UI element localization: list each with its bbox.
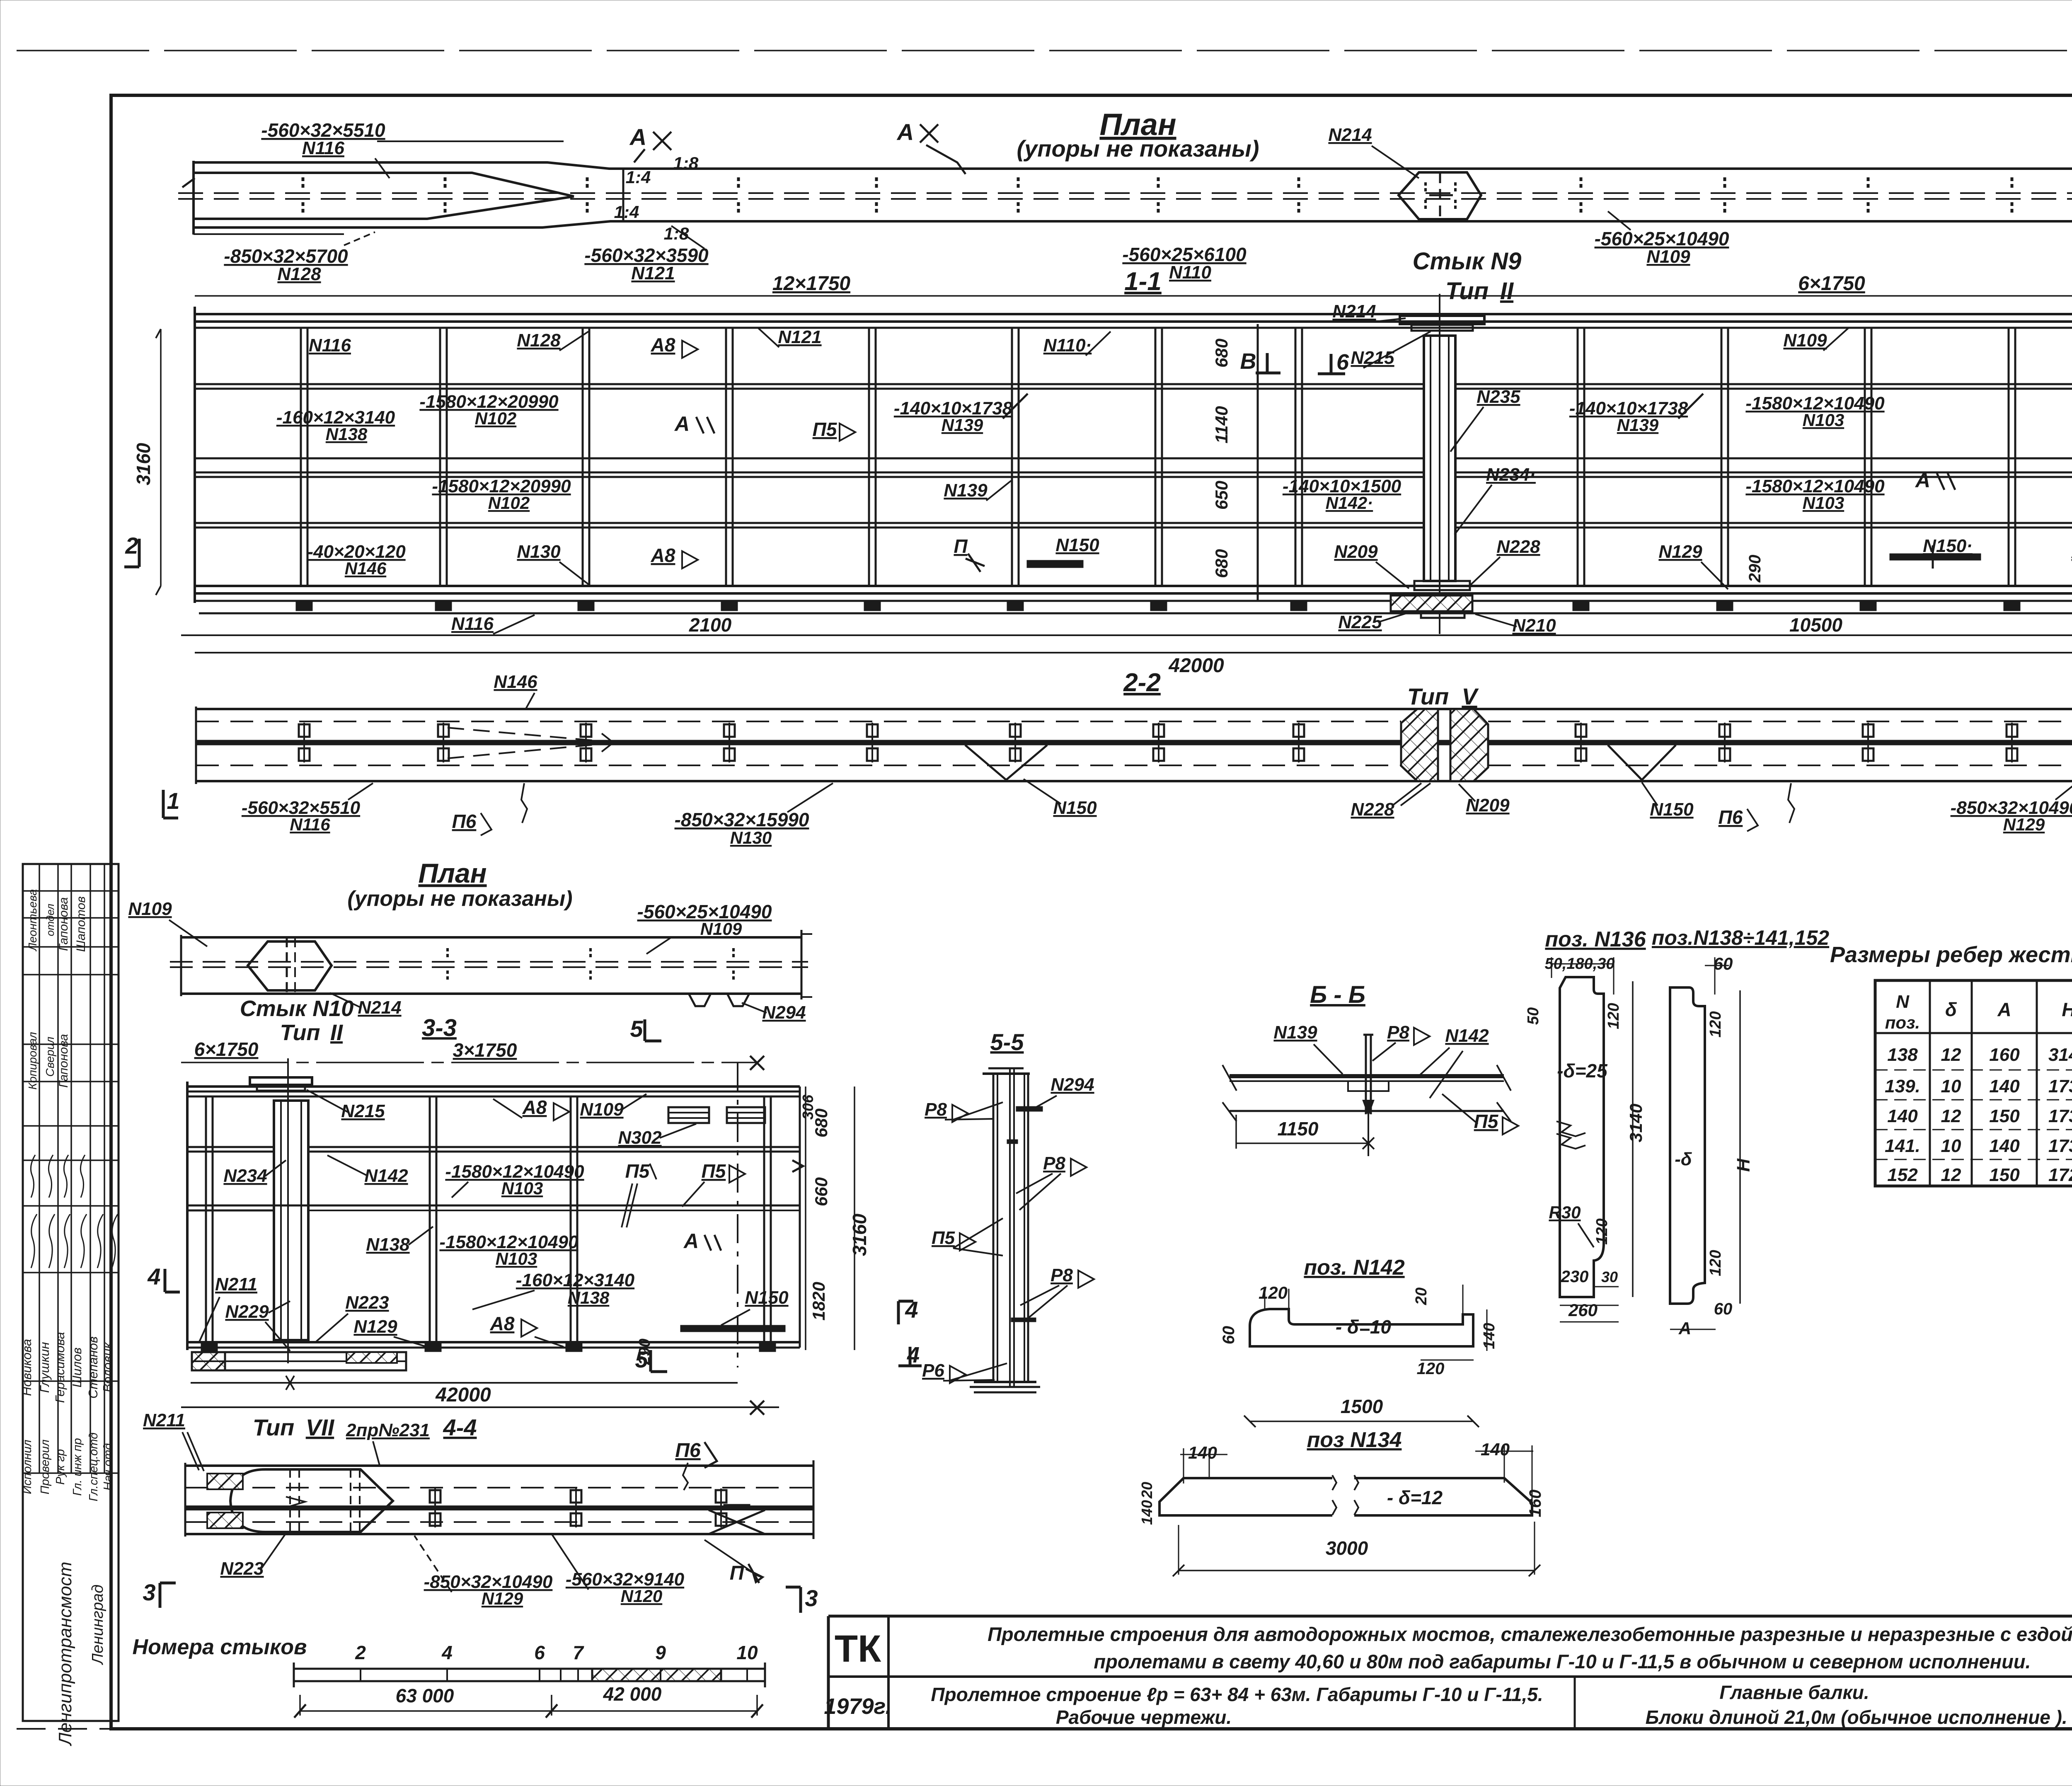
svg-text:660: 660: [811, 1177, 831, 1206]
svg-text:N210: N210: [1512, 615, 1556, 636]
4-4 web center line: [185, 1505, 813, 1510]
pos136 bottom dims: [1594, 1286, 1619, 1287]
svg-text:3160: 3160: [849, 1213, 870, 1256]
svg-text:N116: N116: [451, 614, 494, 634]
svg-text:1:8: 1:8: [673, 153, 699, 173]
sheet trim line top: [17, 50, 2072, 51]
svg-text:12: 12: [1941, 1106, 1961, 1126]
svg-text:П6: П6: [1719, 806, 1743, 828]
svg-text:1-1: 1-1: [1124, 267, 1162, 296]
svg-text:N120: N120: [621, 1586, 662, 1606]
svg-text:10: 10: [736, 1642, 758, 1663]
svg-text:141.: 141.: [1885, 1136, 1920, 1156]
splice Styk N9 in section 1-1: center axis: [1439, 294, 1440, 634]
svg-text:П5: П5: [1474, 1111, 1499, 1132]
svg-text:Гапонова: Гапонова: [57, 1034, 70, 1088]
svg-text:Рук гр: Рук гр: [54, 1449, 67, 1485]
svg-text:(упоры не показаны): (упоры не показаны): [347, 887, 572, 911]
svg-text:Блоки длиной 21,0м (обычное: Блоки длиной 21,0м (обычное исполнение )…: [1646, 1706, 2072, 1728]
2-2 V-notch marks: [965, 745, 1047, 780]
svg-text:N142: N142: [1445, 1026, 1489, 1046]
longitudinal line B: [195, 457, 1424, 460]
svg-text:II: II: [1500, 278, 1514, 305]
svg-text:6×1750: 6×1750: [194, 1038, 259, 1060]
svg-text:1:8: 1:8: [664, 224, 689, 243]
svg-text:Номера стыков: Номера стыков: [133, 1635, 307, 1659]
5-5 top flange: [983, 1072, 1030, 1075]
svg-text:N215: N215: [1351, 348, 1394, 368]
B-B beam: [1230, 1074, 1504, 1078]
svg-text:N138: N138: [366, 1234, 410, 1255]
svg-text:63 000: 63 000: [396, 1685, 454, 1706]
svg-text:VII: VII: [306, 1414, 335, 1440]
svg-text:Главные балки.: Главные балки.: [1719, 1682, 1869, 1703]
3-3 N150 bar: [680, 1325, 785, 1332]
svg-text:3000: 3000: [1326, 1537, 1368, 1559]
svg-text:1:4: 1:4: [614, 202, 639, 222]
svg-text:N103: N103: [1803, 410, 1844, 430]
svg-text:Воловик: Воловик: [100, 1342, 115, 1392]
svg-text:120: 120: [1707, 1011, 1724, 1037]
svg-text:Пролетное строение ℓр = 63+: Пролетное строение ℓр = 63+ 84 + 63м. Га…: [931, 1684, 1543, 1705]
vertical stiffeners section 1-1: [300, 328, 302, 586]
pos134 strip outline right part: [1354, 1478, 1532, 1515]
svg-text:N129: N129: [1658, 542, 1702, 562]
svg-text:-δ: -δ: [1675, 1149, 1692, 1169]
section 1-1 top flange: [195, 313, 2072, 315]
svg-text:2: 2: [355, 1642, 366, 1663]
4-4 splice obround Tip VII: [230, 1469, 393, 1532]
svg-text:42000: 42000: [1168, 655, 1224, 677]
svg-text:-δ=25: -δ=25: [1557, 1060, 1608, 1082]
2-2 band outline: [196, 708, 2072, 710]
svg-text:12×1750: 12×1750: [772, 273, 851, 295]
3-3 bottom flange: [187, 1341, 800, 1343]
svg-text:4-4: 4-4: [443, 1414, 477, 1440]
3-3 N302 stop blocks: [668, 1107, 709, 1123]
pos142 dims: [1264, 1289, 1266, 1309]
svg-text:140: 140: [1481, 1440, 1510, 1459]
svg-text:N209: N209: [1334, 542, 1378, 562]
svg-text:12: 12: [1941, 1165, 1961, 1185]
svg-text:П6: П6: [675, 1440, 701, 1462]
svg-text:160: 160: [1526, 1490, 1544, 1517]
svg-text:А: А: [896, 119, 914, 145]
svg-text:А8: А8: [522, 1096, 547, 1118]
svg-text:N139: N139: [942, 415, 983, 435]
svg-text:1738: 1738: [2048, 1076, 2072, 1096]
3-3 bottom splice plates: [192, 1352, 225, 1370]
2-2 bolt clusters: [299, 724, 310, 737]
2-2 П6 leader right: [1788, 783, 1794, 823]
svg-text:120: 120: [1417, 1360, 1445, 1378]
svg-text:N139: N139: [944, 480, 988, 501]
3-3 left edge: [186, 1082, 189, 1350]
svg-text:12: 12: [1941, 1045, 1961, 1065]
svg-text:Р8: Р8: [1051, 1265, 1073, 1285]
svg-text:7: 7: [573, 1642, 584, 1663]
svg-text:Р8: Р8: [925, 1099, 947, 1120]
svg-text:5: 5: [630, 1016, 643, 1042]
svg-text:А8: А8: [490, 1313, 515, 1334]
svg-text:Пролетные строения для авто: Пролетные строения для автодорожных мост…: [988, 1623, 2072, 1645]
svg-text:N121: N121: [631, 263, 675, 283]
plan splice joint line N121/N128: [622, 169, 625, 221]
svg-text:поз. N136: поз. N136: [1545, 927, 1646, 951]
section B-B cut line: [1257, 324, 1259, 601]
svg-text:1150: 1150: [1278, 1118, 1319, 1140]
svg-text:N228: N228: [1496, 537, 1540, 557]
stamp verticals: [39, 864, 40, 1473]
svg-text:N294: N294: [762, 1002, 806, 1023]
plan girder left break mark: [182, 178, 195, 187]
svg-text:N109: N109: [128, 899, 172, 919]
svg-text:-850×32×15990: -850×32×15990: [675, 809, 809, 830]
svg-text:Проверил: Проверил: [39, 1440, 52, 1495]
svg-text:ТК: ТК: [835, 1628, 881, 1670]
svg-text:N150: N150: [1055, 535, 1099, 555]
splice bottom plate N209/N228: [1414, 581, 1470, 590]
svg-text:А8: А8: [651, 545, 675, 566]
svg-text:230: 230: [1561, 1268, 1589, 1286]
svg-text:А: А: [683, 1229, 699, 1253]
lower plan centerline: [170, 961, 808, 963]
svg-text:5: 5: [635, 1346, 648, 1372]
svg-text:Шапотов: Шапотов: [74, 896, 88, 952]
5-5 stub N294: [1016, 1106, 1043, 1111]
svg-text:Тип: Тип: [280, 1020, 320, 1045]
svg-text:II: II: [330, 1020, 343, 1045]
2-2 splice hatched plates N228/N209: [1401, 709, 1438, 781]
svg-text:30: 30: [1601, 1268, 1618, 1285]
svg-text:N130: N130: [730, 828, 772, 847]
svg-text:160: 160: [1989, 1045, 2020, 1065]
svg-text:Тип: Тип: [253, 1414, 295, 1440]
4-4 splice dashed rows: [289, 1469, 291, 1532]
svg-text:140: 140: [1138, 1500, 1155, 1525]
svg-text:В: В: [1240, 349, 1256, 374]
svg-text:отдел: отдел: [44, 903, 56, 936]
svg-text:1738: 1738: [2048, 1106, 2072, 1126]
svg-text:150: 150: [1989, 1165, 2020, 1185]
pos134 strip outline left part: [1159, 1478, 1332, 1515]
svg-text:1820: 1820: [809, 1282, 828, 1320]
svg-text:4: 4: [441, 1642, 453, 1663]
svg-text:N146: N146: [494, 672, 537, 692]
svg-text:N150: N150: [1650, 799, 1694, 820]
svg-text:N223: N223: [220, 1559, 264, 1579]
svg-text:N110·: N110·: [1043, 335, 1092, 356]
lower plan bolt marks: [446, 948, 449, 959]
svg-text:N138: N138: [326, 424, 368, 444]
svg-text:1:4: 1:4: [626, 167, 651, 187]
svg-text:3-3: 3-3: [422, 1014, 457, 1041]
pos138 strip outline: [1670, 987, 1705, 1304]
svg-text:680: 680: [1212, 549, 1231, 578]
pos142 strip outline: [1250, 1309, 1473, 1346]
svg-text:Степанов: Степанов: [86, 1336, 100, 1399]
svg-text:N146: N146: [345, 559, 387, 578]
svg-text:N109: N109: [700, 919, 742, 939]
svg-text:N228: N228: [1351, 799, 1394, 820]
longitudinal stiffener line A: [195, 383, 1424, 385]
svg-text:Гл.спец.отд: Гл.спец.отд: [87, 1433, 100, 1501]
longitudinal stiffener line C: [195, 472, 1424, 474]
stamp outer box: [23, 864, 119, 1721]
pos138 dims: [1714, 957, 1716, 995]
3-3 vertical stiffeners: [205, 1096, 207, 1342]
svg-text:пролетами в свету 40,60 и 8: пролетами в свету 40,60 и 80м под габари…: [1094, 1650, 2031, 1672]
svg-text:120: 120: [1707, 1250, 1724, 1276]
svg-text:3140: 3140: [1626, 1104, 1646, 1142]
svg-text:N103: N103: [501, 1179, 543, 1198]
svg-text:N130: N130: [517, 542, 561, 562]
svg-text:290: 290: [1746, 555, 1764, 583]
3-3 longitudinal line B: [187, 1205, 800, 1207]
svg-text:N235: N235: [1477, 387, 1520, 407]
svg-text:Н: Н: [1733, 1158, 1754, 1172]
svg-text:Гл. инж пр: Гл. инж пр: [71, 1438, 84, 1496]
pos134 chamfer dims: [1183, 1448, 1184, 1483]
svg-text:1728: 1728: [2048, 1165, 2072, 1185]
svg-text:А: А: [1915, 469, 1930, 492]
svg-text:60: 60: [1220, 1326, 1238, 1345]
svg-text:6: 6: [534, 1642, 545, 1663]
svg-text:Размеры ребер жесткости: Размеры ребер жесткости: [1830, 942, 2072, 967]
stamp horizontals: [23, 890, 119, 892]
plan girder inner plate edge bottom (taper 1:4): [194, 196, 574, 219]
cover plate line under bottom flange: [199, 612, 2072, 615]
3-3 splice column N235: [287, 1058, 289, 1363]
svg-text:N129: N129: [353, 1317, 397, 1337]
svg-text:- δ=10: - δ=10: [1336, 1316, 1392, 1338]
svg-text:А: А: [674, 412, 690, 436]
svg-text:Копировал: Копировал: [26, 1032, 39, 1089]
svg-text:N138: N138: [568, 1288, 610, 1307]
plan girder extra bottom edge line left part: [194, 233, 344, 235]
lower plan right-end flange notches N294: [689, 994, 711, 1006]
svg-text:N121: N121: [778, 327, 821, 347]
svg-text:Леонтьева: Леонтьева: [26, 889, 39, 952]
svg-text:650: 650: [1212, 481, 1231, 510]
svg-text:120: 120: [1259, 1283, 1288, 1302]
section 1-1 left edge: [194, 307, 196, 603]
plan girder inner plate edge top (taper 1:4): [194, 173, 574, 196]
svg-text:поз.: поз.: [1885, 1013, 1920, 1032]
stamp signatures band 2: [31, 1155, 35, 1198]
svg-text:3×1750: 3×1750: [453, 1039, 517, 1061]
scale bar body: [294, 1669, 765, 1681]
svg-text:N225: N225: [1338, 612, 1382, 632]
svg-text:1979г.: 1979г.: [824, 1694, 891, 1719]
svg-text:Нач отд: Нач отд: [102, 1443, 115, 1491]
svg-text:9: 9: [655, 1642, 666, 1663]
svg-text:4: 4: [147, 1263, 160, 1290]
svg-text:Исполнил: Исполнил: [21, 1440, 34, 1494]
svg-text:R30: R30: [1549, 1203, 1581, 1222]
svg-text:поз. N142: поз. N142: [1304, 1256, 1404, 1280]
svg-text:N211: N211: [143, 1410, 185, 1430]
svg-text:А: А: [629, 124, 646, 150]
section 1-1 bottom flange: [195, 585, 2072, 587]
svg-text:2-2: 2-2: [1123, 668, 1161, 697]
3-3 right break edge: [799, 1087, 801, 1348]
svg-text:60: 60: [1714, 1300, 1733, 1318]
5-5 column: [992, 1074, 995, 1382]
svg-text:N128: N128: [277, 264, 321, 284]
svg-text:Шилов: Шилов: [70, 1348, 84, 1388]
2-2 taper hidden lines: [448, 728, 599, 741]
plan centerline dashed: [178, 192, 2072, 194]
svg-text:П6: П6: [452, 811, 477, 832]
svg-text:Н: Н: [2062, 999, 2072, 1020]
svg-text:1730: 1730: [2048, 1136, 2072, 1156]
lower plan band outline: [181, 936, 801, 939]
cut line 5-5 vertical: [737, 1062, 738, 1367]
4-4 splice bolts hatch left: [207, 1474, 243, 1489]
svg-text:П5: П5: [625, 1160, 650, 1182]
svg-text:2: 2: [125, 532, 138, 559]
svg-text:2пр№231: 2пр№231: [346, 1420, 430, 1440]
scale bar dims: [300, 1710, 757, 1712]
svg-text:П5: П5: [702, 1160, 726, 1182]
svg-text:Ленинград: Ленинград: [89, 1585, 107, 1665]
svg-text:N294: N294: [1051, 1075, 1094, 1095]
pos136 3140 dim: [1632, 981, 1634, 1297]
svg-text:поз.N138÷141,152: поз.N138÷141,152: [1652, 926, 1829, 949]
svg-text:N139: N139: [1273, 1022, 1317, 1043]
svg-text:N109: N109: [1646, 247, 1690, 267]
svg-text:N223: N223: [345, 1292, 389, 1313]
svg-text:П: П: [954, 535, 968, 557]
svg-text:N: N: [1896, 992, 1910, 1012]
svg-text:N214: N214: [358, 997, 401, 1018]
svg-text:Р8: Р8: [1043, 1153, 1065, 1174]
3-3 longitudinal line A: [187, 1146, 274, 1148]
svg-text:Сверил: Сверил: [44, 1036, 56, 1077]
svg-text:139.: 139.: [1885, 1076, 1920, 1096]
svg-text:N211: N211: [215, 1274, 257, 1295]
svg-text:Р8: Р8: [1387, 1022, 1409, 1043]
svg-text:Герасимова: Герасимова: [53, 1332, 67, 1403]
svg-text:N116: N116: [290, 815, 330, 834]
B-B notch: [1348, 1081, 1389, 1091]
svg-text:138: 138: [1887, 1045, 1918, 1065]
stamp signatures band: [31, 1214, 37, 1268]
svg-text:10: 10: [1941, 1076, 1961, 1096]
svg-text:N116: N116: [309, 335, 351, 356]
svg-text:П5: П5: [932, 1228, 955, 1248]
svg-text:20: 20: [1413, 1287, 1430, 1305]
svg-text:140: 140: [1989, 1136, 2020, 1156]
svg-text:120: 120: [1593, 1218, 1611, 1244]
svg-text:N234: N234: [223, 1166, 267, 1186]
5-5 bottom flange: [974, 1381, 1036, 1383]
svg-text:V: V: [1462, 683, 1479, 709]
lower plan splice octagon N214 (Styk N10): [248, 941, 332, 990]
dimension 3160 left: [160, 329, 162, 586]
svg-text:Гапонова: Гапонова: [57, 897, 70, 951]
svg-text:N129: N129: [2003, 815, 2045, 834]
svg-text:5-5: 5-5: [990, 1029, 1024, 1055]
3-3 top flange: [187, 1085, 800, 1088]
svg-text:260: 260: [1568, 1300, 1598, 1320]
svg-text:N150·: N150·: [1923, 536, 1973, 556]
longitudinal stiffener line D: [195, 522, 1424, 524]
svg-text:680: 680: [1212, 339, 1231, 368]
svg-text:10: 10: [1941, 1136, 1961, 1156]
svg-text:42000: 42000: [435, 1384, 491, 1406]
plan bolt group marks: [302, 177, 305, 190]
svg-text:План: План: [418, 858, 487, 888]
3-3 right dim column: [805, 1087, 806, 1350]
svg-text:-160×12×3140: -160×12×3140: [516, 1270, 635, 1290]
4-4 band outline: [185, 1464, 813, 1467]
svg-text:1140: 1140: [1212, 406, 1231, 443]
sheet trim dashes bottom left: [17, 1728, 110, 1730]
svg-text:N116: N116: [302, 138, 344, 158]
svg-text:П5: П5: [813, 419, 838, 440]
svg-text:120: 120: [1605, 1003, 1622, 1029]
4-4 X brace right: [709, 1510, 765, 1534]
svg-text:2100: 2100: [689, 614, 732, 636]
svg-text:1500: 1500: [1341, 1396, 1383, 1417]
svg-text:3: 3: [805, 1585, 818, 1611]
svg-text:Тип: Тип: [1445, 278, 1489, 305]
long lines between 1-1 and 2-2: [181, 634, 2072, 636]
svg-text:Тип: Тип: [1407, 683, 1449, 709]
splice top plates N214: [1400, 316, 1484, 324]
svg-text:50: 50: [1525, 1007, 1542, 1025]
3-3 42000 dims: [191, 1382, 738, 1384]
pos136 top dim ticks: [1552, 963, 1614, 965]
svg-text:δ: δ: [1945, 999, 1957, 1020]
pos136 strip outline: [1560, 977, 1604, 1297]
svg-text:N109: N109: [1783, 330, 1827, 351]
svg-text:Стык N10: Стык N10: [240, 996, 354, 1021]
plan girder top flange outline: [194, 162, 2072, 169]
svg-text:N139: N139: [1617, 415, 1659, 435]
svg-text:140: 140: [1887, 1106, 1918, 1126]
svg-text:А: А: [1997, 999, 2011, 1020]
svg-text:Глушкин: Глушкин: [37, 1342, 52, 1393]
svg-text:N129: N129: [482, 1589, 523, 1608]
svg-text:140: 140: [1481, 1323, 1498, 1349]
svg-text:150: 150: [1989, 1106, 2020, 1126]
splice bottom hatched pack N225: [1391, 595, 1472, 611]
svg-text:42 000: 42 000: [603, 1683, 662, 1705]
svg-text:N214: N214: [1332, 301, 1376, 322]
svg-text:N302: N302: [618, 1128, 662, 1148]
svg-text:3160: 3160: [133, 443, 154, 485]
svg-text:N109: N109: [580, 1099, 624, 1120]
splice vertical plate N235/N234: [1424, 336, 1455, 581]
svg-text:Рабочие чертежи.: Рабочие чертежи.: [1056, 1706, 1232, 1728]
svg-text:N103: N103: [496, 1249, 537, 1268]
svg-text:6×1750: 6×1750: [1798, 273, 1865, 295]
svg-text:N214: N214: [1328, 125, 1372, 145]
svg-text:Новикова: Новикова: [19, 1339, 34, 1396]
title block outline: [828, 1615, 2072, 1618]
4-4 dashed flange edges: [185, 1487, 813, 1488]
svg-text:10500: 10500: [1789, 614, 1842, 636]
splice bolt dashes: [1424, 182, 1427, 191]
svg-text:3: 3: [143, 1579, 155, 1605]
svg-text:N110: N110: [1169, 262, 1211, 283]
stiffener size table grid: [1875, 980, 2072, 1186]
svg-text:3140: 3140: [2048, 1045, 2072, 1065]
plan splice octagon N214 (Стык N9): [1399, 172, 1481, 219]
